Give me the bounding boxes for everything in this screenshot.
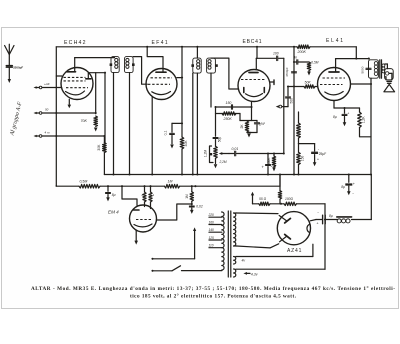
wire IF2 secondary bottom (210, 73, 212, 107)
wire EL41 plate to OT (336, 47, 369, 72)
capacitor 8u filter (316, 210, 332, 225)
wire B+ top bus (56, 46, 356, 48)
potentiometer bracket (210, 146, 214, 163)
wire coupling drop (283, 58, 285, 154)
svg-text:1,2M: 1,2M (204, 150, 208, 158)
wire AZ41 filament out (310, 220, 322, 221)
AZ41 plate 2 (280, 234, 291, 241)
svg-text:0,5M: 0,5M (80, 180, 88, 184)
wire IF2 primary bottoms (193, 73, 198, 174)
power transformer 4v winding (234, 257, 246, 265)
svg-text:50μ: 50μ (217, 137, 221, 143)
wire IF2 primary top to bus (196, 46, 198, 58)
IF1 secondary trimmer (132, 63, 135, 66)
wire AF line (229, 153, 284, 155)
wire screen cap stub (172, 122, 183, 132)
wire ECH42 plate to IF1 (75, 58, 115, 71)
tube ECH42 (61, 40, 93, 100)
wire ECH42 anode to 70K (88, 73, 96, 114)
ground antenna arrow (8, 79, 11, 83)
ECH42 grid dashes (64, 77, 89, 87)
wire OT bottom to right bus (370, 78, 372, 174)
capacitor 500 (286, 97, 294, 104)
capacitor 50u pot (213, 137, 221, 147)
resistor 200K in top bus (297, 45, 311, 54)
resistor 1M EM4 (185, 186, 194, 205)
capacitor 5000pF tone (361, 58, 372, 74)
svg-text:0,01: 0,01 (232, 147, 239, 151)
arrow 25uF ground (313, 155, 317, 167)
IF2 secondary trimmer (215, 64, 218, 67)
ground EM4 (134, 241, 138, 245)
label Al gruppo A-F (9, 101, 23, 137)
svg-text:25μF: 25μF (319, 152, 327, 156)
EBC41 plate bar (249, 72, 258, 74)
resistor 30K EF41 screen (180, 137, 188, 149)
wire EF41 screen stub (177, 77, 182, 79)
svg-text:4,3v: 4,3v (251, 272, 258, 276)
EM4 grid dashes (136, 219, 152, 221)
svg-text:100Ω: 100Ω (285, 197, 294, 201)
EF41 cathode arc (152, 92, 171, 95)
svg-text:1M: 1M (168, 180, 173, 184)
resistor 100ohm (284, 197, 297, 205)
svg-text:50K: 50K (305, 80, 312, 84)
EM4 cathode arc (134, 224, 152, 227)
arrow heater up (251, 192, 254, 204)
wire EBC41 plate and bus drop (256, 46, 258, 70)
IF2 primary trimmer (191, 64, 194, 67)
svg-text:8μ: 8μ (333, 115, 337, 119)
resistor 0,5M AVC (79, 180, 100, 188)
ECH42 hexode anode bar (86, 78, 91, 80)
resistor 2K EBC41 cathode (240, 121, 249, 132)
svg-text:500: 500 (290, 98, 294, 104)
capacitor antenna 2200pF (6, 65, 23, 79)
svg-text:4v: 4v (242, 258, 246, 262)
resistor 55ohm (259, 197, 270, 205)
potentiometer 1,2M (204, 146, 218, 158)
svg-text:50: 50 (45, 108, 49, 112)
wire EL41 screen stub (351, 83, 373, 85)
EF41 grid dashes (148, 78, 172, 85)
potentiometer wiper arrow (219, 152, 230, 164)
svg-text:EBC41: EBC41 (243, 39, 263, 45)
capacitor 4700pF (285, 67, 297, 77)
svg-text:EF41: EF41 (152, 40, 170, 46)
wire stub to ECH42 osc grid (56, 75, 62, 77)
filter choke (337, 217, 352, 223)
IF1 secondary box (125, 57, 134, 73)
power transformer HV secondary (234, 213, 237, 246)
wire 250K line (216, 113, 241, 115)
wire 4n branch (294, 61, 309, 63)
wire ECH42 cathode to ground (68, 99, 70, 104)
wire IF2 secondary to EBC41 grid (211, 58, 239, 89)
EBC41 cathode arc (246, 94, 263, 97)
wire tone pot stub (298, 112, 300, 123)
wire dropper from bus1 (278, 175, 281, 204)
ground 400K (272, 167, 276, 172)
capacitor 25u EBC41 (254, 121, 265, 133)
capacitor 0,02 (189, 204, 203, 210)
wire IF1 secondary bottom drop (129, 73, 131, 175)
svg-text:140: 140 (209, 228, 215, 232)
svg-text:70K: 70K (81, 119, 88, 123)
svg-text:8μ: 8μ (112, 193, 116, 197)
ground 0,5M (307, 71, 311, 76)
IF1 primary box (111, 57, 119, 73)
EBC41 grid dashes (241, 79, 266, 81)
capacitor 100pF coupling (273, 52, 279, 61)
wire cathode network (240, 107, 257, 121)
resistor 250K (222, 112, 236, 121)
wire 500 branch (287, 85, 294, 95)
caption line 1 (31, 285, 395, 292)
wire bus1 HT return (104, 173, 372, 175)
svg-text:160: 160 (209, 221, 215, 225)
svg-text:AZ41: AZ41 (287, 248, 302, 254)
terminal pickup (276, 105, 282, 108)
speaker (384, 69, 395, 92)
wire tone to node (299, 138, 315, 144)
svg-text:EL41: EL41 (326, 38, 345, 44)
wire AM junction (104, 72, 106, 143)
resistor 50K (304, 80, 315, 88)
resistor 30K under ECH42 (97, 143, 106, 153)
svg-text:4n: 4n (294, 56, 298, 60)
capacitor 4n (294, 56, 298, 65)
EF41 plate bar (156, 71, 166, 73)
wire switch line A (151, 227, 196, 259)
wire pot column (215, 107, 217, 136)
resistor 1,2K cathode (358, 108, 366, 128)
wire terminal AF to ECH42 grid (42, 87, 62, 89)
wire EM4 feed L (121, 185, 137, 205)
wire EBC41 plate coupling (256, 57, 284, 59)
svg-text:25μ: 25μ (270, 164, 277, 168)
capacitor 8u EL41 cathode (333, 108, 349, 119)
svg-text:+: + (347, 112, 349, 116)
EBC41 diode plate right (264, 80, 274, 93)
svg-text:30K: 30K (97, 144, 101, 151)
wire left vertical drop (55, 47, 57, 186)
wire 30K to bus1 (103, 153, 105, 175)
resistor EM4 grid 2 (149, 186, 155, 208)
resistor tone pot (297, 123, 301, 138)
svg-text:1M: 1M (185, 194, 189, 199)
tube EL41 (318, 38, 351, 101)
ECH42 plate bar (67, 71, 76, 73)
wire terminal 50 bus (42, 112, 96, 114)
wire to pickup terminal (282, 99, 288, 107)
resistor 70K (81, 116, 98, 127)
svg-text:250K: 250K (223, 117, 233, 121)
wire choke to B+ riser (352, 175, 372, 220)
power transformer core (228, 211, 231, 277)
svg-text:100: 100 (273, 52, 279, 56)
AZ41 plate 1 (279, 216, 290, 223)
wire 4,3v return (236, 218, 326, 269)
wire 4v to AZ41 filament (236, 244, 313, 256)
svg-text:125: 125 (209, 236, 215, 240)
svg-text:30K: 30K (184, 140, 188, 147)
power transformer 4,3v winding (234, 269, 258, 277)
wire EM4 cathode (135, 231, 137, 241)
svg-text:0,1: 0,1 (164, 131, 168, 136)
ground EBC41 cathode (247, 133, 251, 138)
svg-text:200K: 200K (297, 50, 307, 54)
svg-text:ALTAR - Mod. MR35 E. Lunghezza: ALTAR - Mod. MR35 E. Lunghezza d'onda in… (31, 285, 395, 292)
svg-text:220: 220 (208, 213, 215, 217)
wire HV bottom to AZ41 (237, 244, 279, 248)
EL41 cathode arc (325, 92, 343, 95)
wire ECH42 right stub drop (104, 73, 106, 143)
wire filter to choke (326, 219, 338, 221)
capacitor 25u on bus1 (262, 152, 277, 174)
ground ECH42 (68, 105, 72, 109)
ECH42 cathode arc (66, 91, 85, 95)
svg-text:0,5M: 0,5M (311, 61, 318, 65)
wire EF41 cathode drop (151, 97, 153, 175)
wire right vertical of EF41 (181, 46, 183, 175)
terminal AM (34, 131, 51, 138)
wire EF41 plate to bus (146, 46, 163, 72)
wire EL41 cathode (334, 101, 360, 109)
wire cathode net bottom (247, 132, 257, 134)
capacitor 25uF electrolytic (312, 144, 327, 162)
resistor 0,5M grid (307, 61, 318, 71)
AZ41 filament arc (307, 224, 310, 232)
EM4 target bar (134, 209, 140, 211)
wire terminal AM to 30K (42, 135, 106, 137)
svg-text:2200pF: 2200pF (13, 65, 23, 69)
wire IF1 secondary to EF41 grid (133, 57, 147, 85)
resistor EM4 grid 1 (141, 186, 146, 206)
antenna (5, 44, 14, 65)
svg-text:tico 185 volt, al 2° elettroli: tico 185 volt, al 2° elettrolitico 157. … (130, 293, 297, 300)
terminal AF (34, 82, 50, 89)
arrow 8u AVC ground (106, 197, 110, 201)
wire IF1 primary bottom drop (113, 73, 115, 175)
svg-text:1,2K: 1,2K (361, 116, 365, 124)
EL41 plate bar (329, 71, 339, 73)
svg-text:2,2M: 2,2M (219, 160, 227, 164)
caption line 2 (130, 293, 297, 300)
wire pot bottom (215, 158, 217, 163)
ground pot (214, 164, 218, 168)
output transformer (369, 60, 385, 78)
svg-text:ECH42: ECH42 (64, 40, 87, 46)
wire OT to speaker (385, 64, 388, 80)
svg-text:150: 150 (226, 101, 232, 105)
svg-text:EM 4: EM 4 (108, 210, 119, 215)
switch mains (151, 266, 221, 272)
svg-text:4700pF: 4700pF (285, 67, 289, 77)
resistor 1M AVC (164, 180, 179, 188)
wire cathode to right bus (360, 128, 372, 137)
ground 8u cathode (343, 117, 347, 127)
wire HV top to AZ41 (237, 212, 279, 215)
tube EM4 (108, 205, 157, 232)
IF2 primary box (193, 58, 201, 73)
svg-text:0,02: 0,02 (196, 205, 203, 209)
svg-text:4 m: 4 m (45, 131, 51, 135)
ground 0,02 (190, 210, 194, 214)
arrow screen cap ground (170, 145, 174, 149)
svg-text:55 Ω: 55 Ω (259, 197, 267, 201)
svg-text:150: 150 (300, 156, 304, 162)
power transformer primary winding (222, 212, 224, 270)
IF1 primary trimmer (110, 63, 113, 66)
EL41 grid dashes (320, 78, 345, 85)
arrow 8uF ground (347, 190, 354, 195)
IF2 secondary box (207, 58, 216, 73)
capacitor 8uF bus1 (341, 175, 356, 192)
svg-text:8μ: 8μ (341, 185, 345, 189)
svg-text:+AF: +AF (44, 82, 50, 86)
tube EBC41 (238, 39, 270, 102)
tube AZ41 (277, 212, 310, 254)
capacitor 0,1uF screen (164, 131, 175, 144)
wire EM4 to 1M node (156, 204, 191, 220)
wire heater to AZ41 filament (324, 204, 326, 220)
wire bus2 AVC (56, 175, 280, 188)
capacitor 0,01 (232, 147, 239, 156)
capacitor 150 (226, 101, 233, 109)
wire EBC41 cathode drop (251, 101, 253, 107)
wire long vertical 294 (293, 46, 295, 175)
wire stub y72 (96, 72, 105, 74)
arrow 70K bottom (94, 128, 98, 132)
wire EL41 grid line (294, 86, 318, 88)
wire 150 line (214, 106, 252, 108)
terminal 50 (34, 108, 49, 115)
EBC41 diode plate left (243, 88, 245, 93)
power transformer primary taps (208, 213, 222, 248)
tube EF41 (146, 40, 177, 100)
resistor 150 to bus1 (297, 144, 305, 175)
wire heater line (253, 203, 326, 205)
svg-text:8μ: 8μ (329, 214, 333, 218)
resistor 400K (267, 152, 276, 166)
svg-text:110: 110 (209, 244, 214, 248)
svg-text:5000: 5000 (361, 66, 365, 73)
capacitor 8u AVC (106, 186, 116, 197)
